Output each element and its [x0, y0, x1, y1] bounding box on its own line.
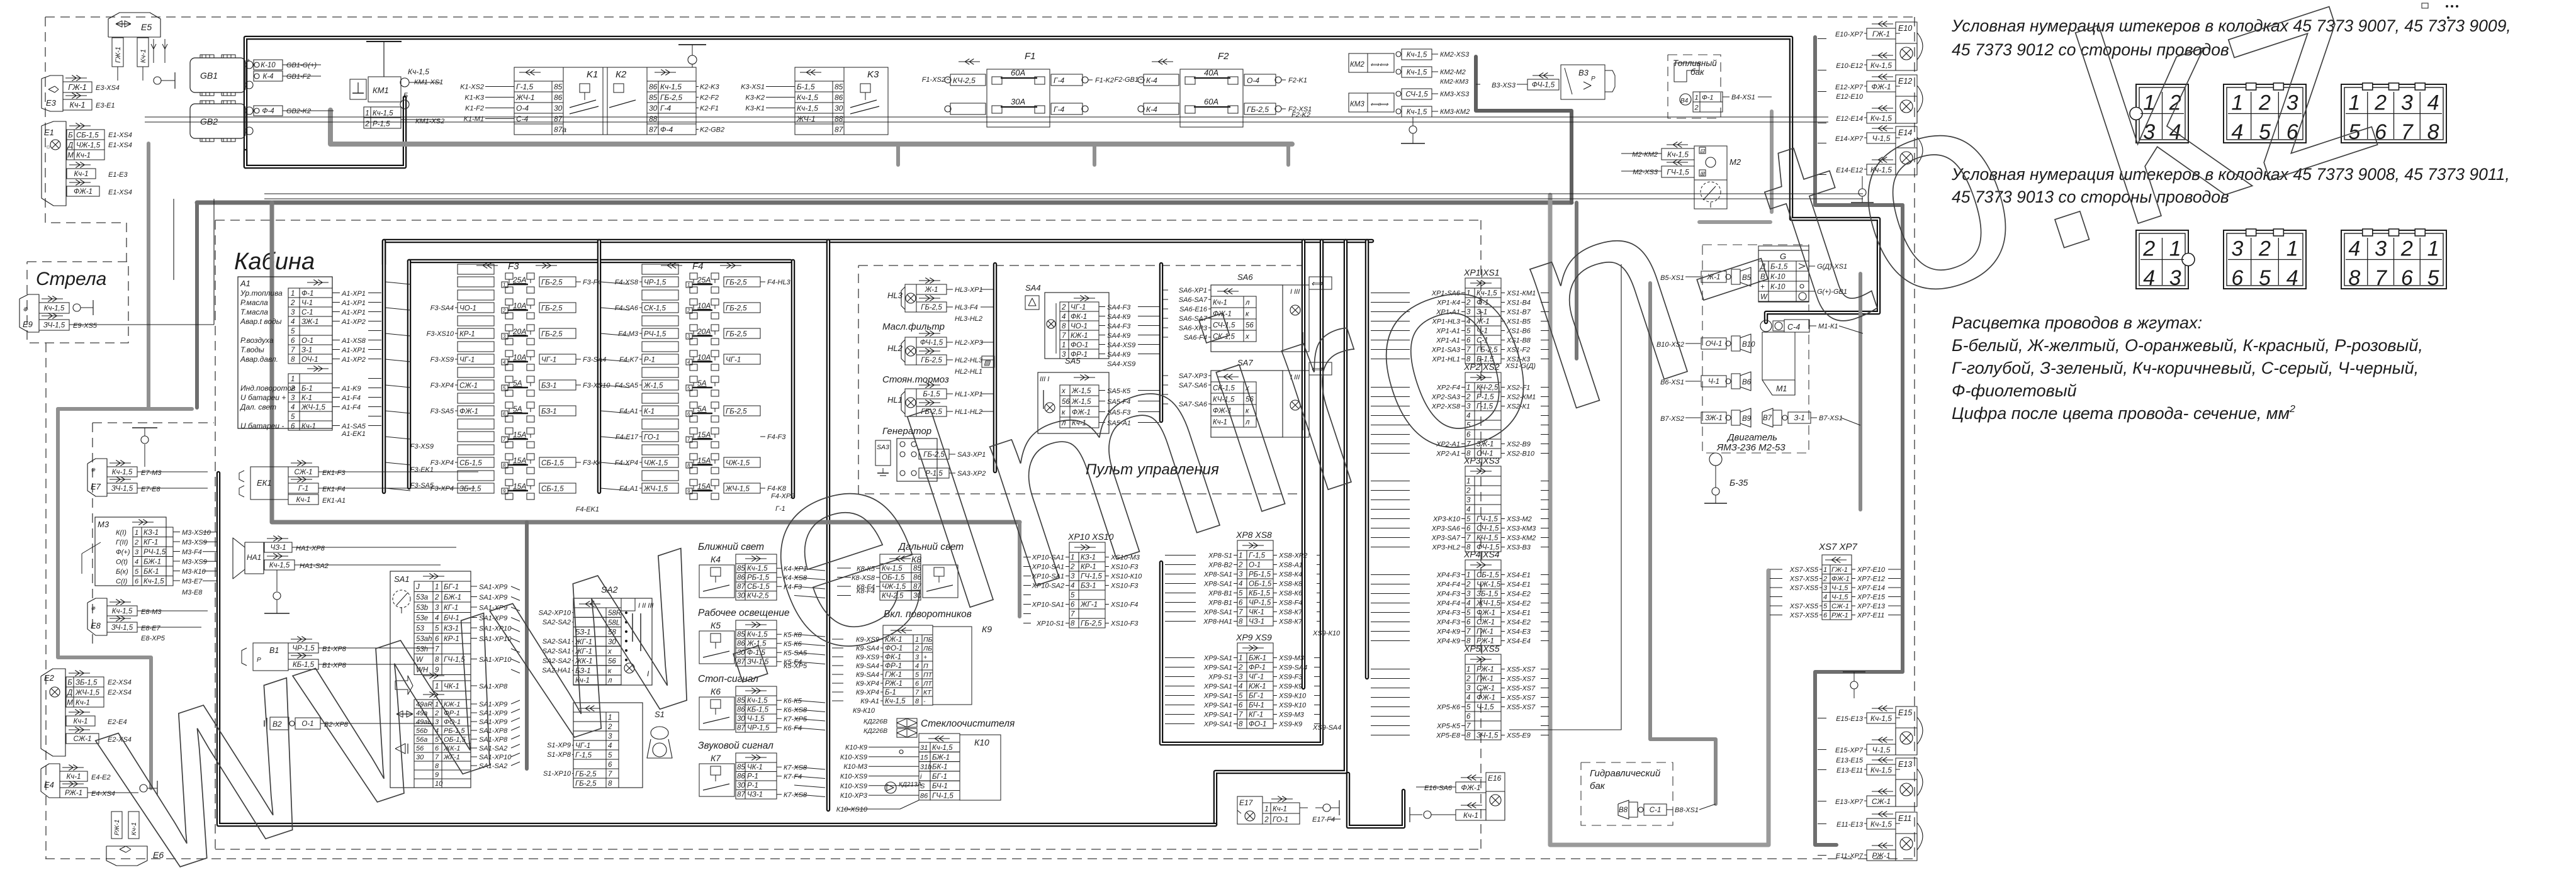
wire E9-XS5 riser to chassis bus: [213, 199, 215, 325]
svg-text:ЧГ-1: ЧГ-1: [1249, 674, 1264, 681]
svg-text:F4-SA5: F4-SA5: [615, 382, 639, 389]
svg-text:ФЖ-1: ФЖ-1: [1461, 783, 1480, 792]
svg-text:Кч-1: Кч-1: [70, 101, 86, 109]
lamp Е10: [1872, 23, 1893, 25]
svg-text:K1-F2: K1-F2: [465, 105, 484, 113]
svg-text:ЧГ-1: ЧГ-1: [541, 357, 556, 364]
node engine dashed box (Двигатель ЯМЗ-236 М2-53): [1702, 245, 1809, 453]
svg-text:F4-K7: F4-K7: [619, 356, 639, 364]
svg-text:1: 1: [291, 290, 295, 298]
svg-text:ХР4-К9: ХР4-К9: [1436, 628, 1460, 636]
svg-text:Е15-ХР7: Е15-ХР7: [1835, 747, 1864, 754]
svg-text:U батареи +: U батареи +: [240, 393, 286, 402]
svg-text:В8: В8: [1619, 807, 1628, 814]
wire fan-out HL to vertical: [981, 289, 993, 290]
svg-text:Б: Б: [67, 679, 72, 687]
svg-text:1: 1: [291, 376, 295, 383]
svg-text:5: 5: [2427, 266, 2439, 290]
svg-text:-: -: [923, 698, 926, 705]
svg-text:Авар.t воды: Авар.t воды: [240, 317, 282, 326]
svg-text:ЖЧ-1,5: ЖЧ-1,5: [1476, 600, 1500, 608]
svg-text:З-1: З-1: [301, 347, 312, 354]
svg-text:6: 6: [687, 411, 690, 417]
wire fan-out SA1 to gray harness: [511, 586, 520, 590]
svg-text:КЧ-1,5: КЧ-1,5: [1476, 535, 1499, 542]
svg-text:М3-XS9: М3-XS9: [182, 539, 207, 547]
svg-text:4: 4: [2348, 237, 2360, 260]
svg-text:F4-A1: F4-A1: [619, 408, 638, 415]
svg-text:ХР3-SA7: ХР3-SA7: [1431, 535, 1461, 542]
svg-text:ФЖ-1: ФЖ-1: [74, 188, 93, 196]
svg-text:ХР3-К10: ХР3-К10: [1432, 516, 1461, 523]
wire long thin bus pair at cabin top: [264, 193, 1863, 194]
svg-text:ГБ-2,5: ГБ-2,5: [726, 408, 747, 416]
svg-text:К(I): К(I): [116, 529, 127, 537]
svg-text:ЧЗ-1: ЧЗ-1: [270, 544, 286, 552]
svg-text:СЖ-1: СЖ-1: [1476, 619, 1495, 627]
svg-text:XS4-Е2: XS4-Е2: [1506, 600, 1531, 608]
svg-text:85: 85: [737, 764, 745, 771]
svg-text:7: 7: [1466, 535, 1471, 542]
svg-text:ГЖ-1: ГЖ-1: [68, 83, 86, 92]
wire cabin bottom harness: [218, 473, 1215, 825]
svg-text:ЗЧ-1,5: ЗЧ-1,5: [1476, 732, 1499, 740]
node chassis boundary (outer dashed frame): [45, 16, 1915, 18]
svg-text:XS7-XS5: XS7-XS5: [1789, 584, 1819, 592]
svg-text:XS3-В3: XS3-В3: [1506, 544, 1531, 552]
lamp Е13: [1872, 759, 1893, 761]
svg-text:6: 6: [291, 423, 295, 430]
svg-text:Дал. свет: Дал. свет: [239, 403, 276, 411]
svg-text:Кч-1: Кч-1: [76, 152, 91, 160]
wire cabin second top harness: [409, 259, 790, 264]
svg-text:В3-XS3: В3-XS3: [1492, 82, 1516, 89]
svg-text:КР-1: КР-1: [459, 331, 475, 338]
wire gray harness chassis bus: [197, 201, 1572, 205]
svg-text:6: 6: [1466, 525, 1471, 533]
svg-text:ГБ-2,5: ГБ-2,5: [726, 305, 747, 313]
svg-text:1: 1: [1264, 806, 1268, 813]
svg-text:86: 86: [835, 93, 843, 102]
svg-text:F3-K4: F3-K4: [583, 459, 602, 467]
svg-text:ХР5-К6: ХР5-К6: [1436, 704, 1461, 712]
svg-text:РЧ-1,5: РЧ-1,5: [644, 331, 666, 338]
svg-text:7: 7: [503, 437, 506, 443]
svg-text:М3-К10: М3-К10: [182, 568, 206, 576]
svg-text:A1-XS8: A1-XS8: [341, 337, 366, 345]
svg-text:ФЧ-1,5: ФЧ-1,5: [1532, 82, 1555, 89]
svg-text:Д: Д: [67, 142, 73, 150]
svg-text:В8-XS1: В8-XS1: [1675, 807, 1699, 814]
svg-text:Ф-4: Ф-4: [262, 108, 274, 115]
svg-text:1: 1: [1466, 572, 1470, 579]
svg-text:Р: Р: [1591, 75, 1595, 82]
svg-text:СЖ-1: СЖ-1: [1831, 603, 1849, 610]
svg-text:Кч-1,5: Кч-1,5: [797, 104, 818, 113]
svg-text:A1-K9: A1-K9: [341, 385, 361, 393]
svg-text:25А: 25А: [512, 276, 526, 284]
svg-text:3: 3: [1239, 674, 1243, 681]
svg-text:2: 2: [1264, 817, 1269, 824]
svg-text:Е15-Е13: Е15-Е13: [1836, 715, 1864, 723]
svg-text:КД226В: КД226В: [863, 718, 887, 725]
svg-text:XS4-Е4: XS4-Е4: [1506, 638, 1531, 645]
svg-text:8: 8: [291, 356, 295, 364]
svg-text:6: 6: [2401, 266, 2413, 290]
svg-text:10А: 10А: [697, 301, 711, 310]
node fuel tank dashed box (Топливный бак): [1668, 55, 1721, 118]
svg-text:15А: 15А: [513, 482, 526, 491]
wire fan-out XP8 XS8: [1165, 555, 1196, 556]
lamp E1 (left headlamp): [42, 121, 66, 206]
svg-text:Г(II): Г(II): [116, 539, 128, 547]
heater plug EK1: [250, 467, 288, 500]
lamp E4 (left turn lamp): [41, 764, 60, 798]
svg-text:K1-XS2: K1-XS2: [460, 84, 484, 91]
svg-text:GB1-F2: GB1-F2: [286, 73, 311, 81]
svg-text:6: 6: [1239, 600, 1243, 607]
svg-text:8: 8: [1466, 732, 1471, 740]
svg-text:Б(к): Б(к): [116, 568, 128, 576]
svg-text:Инд.поворотов: Инд.поворотов: [240, 384, 295, 393]
svg-text:ЗБ-1,5: ЗБ-1,5: [459, 486, 481, 493]
svg-text:ЧР-1,5: ЧР-1,5: [644, 279, 666, 287]
svg-text:7: 7: [1239, 609, 1243, 617]
svg-text:☼: ☼: [45, 143, 51, 150]
svg-text:Р-1: Р-1: [644, 357, 655, 364]
svg-text:ЧЗ-1: ЧЗ-1: [747, 791, 763, 799]
svg-text:Авар.давл.: Авар.давл.: [240, 355, 278, 364]
svg-text:ХР7-Е10: ХР7-Е10: [1857, 566, 1886, 574]
svg-text:БЧ-1: БЧ-1: [932, 783, 948, 790]
svg-text:ХР7-Е11: ХР7-Е11: [1857, 612, 1884, 620]
svg-text:СЧ-1,5: СЧ-1,5: [1405, 91, 1428, 99]
plug B2 (sensor): [270, 717, 289, 730]
lamp E3 (left front marker): [42, 75, 63, 111]
svg-text:6: 6: [2231, 266, 2243, 290]
node HA1 ground: [276, 570, 278, 591]
svg-text:Ч-1,5: Ч-1,5: [1872, 745, 1891, 754]
svg-text:6: 6: [1823, 612, 1828, 620]
svg-text:A1-EK1: A1-EK1: [341, 430, 366, 438]
svg-text:ХР9-SA1: ХР9-SA1: [1203, 712, 1232, 719]
svg-text:бак: бак: [1590, 781, 1606, 791]
svg-text:Кч-1: Кч-1: [1463, 811, 1478, 820]
svg-text:K2-F1: K2-F1: [700, 105, 719, 113]
svg-text:В3: В3: [1578, 68, 1589, 77]
svg-text:4: 4: [503, 360, 506, 366]
svg-text:⟺⟺: ⟺⟺: [1370, 62, 1388, 69]
svg-text:20А: 20А: [697, 327, 711, 336]
svg-text:A1-XP1: A1-XP1: [341, 309, 366, 316]
connector pinout 2x2 straight: [2136, 84, 2188, 143]
lamp E17 (portable lamp socket): [1237, 796, 1263, 824]
svg-text:A1-F4: A1-F4: [341, 394, 361, 402]
svg-text:Г-голубой, З-зеленый, Кч-корич: Г-голубой, З-зеленый, Кч-коричневый, С-с…: [1952, 359, 2419, 377]
svg-text:F4-E17: F4-E17: [616, 433, 639, 441]
svg-text:КМ1: КМ1: [373, 86, 389, 95]
svg-text:Е4: Е4: [44, 780, 54, 790]
svg-text:БК-1: БК-1: [143, 568, 159, 576]
svg-text:60А: 60А: [1204, 97, 1218, 106]
node SA1 fog icon: [395, 744, 405, 754]
svg-text:XS5-XS7: XS5-XS7: [1506, 666, 1536, 674]
svg-text:ХР8-НА1: ХР8-НА1: [1203, 618, 1232, 626]
svg-text:Ч-1,5: Ч-1,5: [1476, 704, 1494, 712]
svg-text:Д: Д: [66, 689, 72, 697]
svg-text:З-1: З-1: [1794, 415, 1804, 422]
plug B1 (brake sensor): [253, 643, 288, 671]
svg-text:М3-XS10: М3-XS10: [182, 529, 211, 537]
svg-text:СЖ-1: СЖ-1: [294, 469, 312, 476]
sensor B8 (hydraulic tank): [1618, 800, 1629, 819]
svg-text:5А: 5А: [697, 379, 707, 388]
node SA1 horn icon: [395, 676, 413, 695]
connector pinout 2x3 straight: [2224, 84, 2306, 143]
svg-text:SA4: SA4: [1025, 283, 1041, 293]
svg-text:2: 2: [290, 385, 295, 393]
svg-text:8: 8: [1239, 721, 1243, 728]
wire fan-out right lamps E10-E14: [1818, 38, 1826, 40]
svg-text:ГО-1: ГО-1: [644, 434, 660, 442]
svg-text:88: 88: [649, 114, 658, 123]
svg-text:С-4: С-4: [516, 114, 529, 123]
svg-text:Кч-1,5: Кч-1,5: [112, 469, 133, 476]
svg-text:Б-35: Б-35: [1730, 477, 1748, 488]
svg-text:K2-F2: K2-F2: [700, 94, 719, 102]
svg-text:85: 85: [835, 82, 843, 91]
svg-text:РЖ-1: РЖ-1: [1872, 851, 1890, 860]
lamp Е12: [1872, 76, 1893, 77]
svg-text:Гидравлический: Гидравлический: [1590, 768, 1661, 779]
svg-text:Кч-1,5: Кч-1,5: [1407, 69, 1427, 77]
svg-text:F4-XS8: F4-XS8: [615, 279, 639, 286]
svg-text:ХР5-К5: ХР5-К5: [1436, 723, 1461, 730]
svg-text:A1-SA5: A1-SA5: [341, 423, 366, 430]
svg-text:Кч-1,5: Кч-1,5: [1870, 714, 1892, 723]
svg-text:XS4-Е1: XS4-Е1: [1506, 610, 1531, 617]
lamp E8: [87, 598, 107, 635]
svg-text:ЧГ-1: ЧГ-1: [726, 357, 741, 364]
svg-text:F4-SA6: F4-SA6: [615, 304, 639, 312]
svg-text:ФЧ-1,5: ФЧ-1,5: [920, 339, 943, 347]
svg-text:GB2-K2: GB2-K2: [286, 108, 311, 115]
node SA7 icon: [1309, 362, 1332, 375]
svg-text:XS9-SA4: XS9-SA4: [1278, 664, 1307, 672]
svg-text:БЗ-1: БЗ-1: [541, 382, 557, 390]
svg-text:XS9-К9: XS9-К9: [1278, 683, 1302, 691]
svg-text:К-1: К-1: [644, 408, 655, 416]
wire fan-out SA4 SA5 to vertical: [1138, 306, 1159, 308]
svg-text:15А: 15А: [513, 430, 526, 439]
svg-text:Кч-1: Кч-1: [296, 496, 311, 504]
lamp E9 (boom work lamp): [20, 294, 39, 332]
svg-text:Кч-1,5: Кч-1,5: [932, 744, 953, 752]
svg-text:ЧК-1: ЧК-1: [747, 764, 763, 771]
svg-text:F3-XP4: F3-XP4: [430, 485, 454, 493]
svg-text:Е16-SA6: Е16-SA6: [1424, 784, 1453, 792]
svg-text:Р-1,5: Р-1,5: [373, 121, 390, 128]
svg-text:НА1-ХР8: НА1-ХР8: [296, 545, 325, 552]
svg-text:4: 4: [135, 559, 138, 566]
svg-text:Кч-1: Кч-1: [301, 423, 316, 430]
lamp Е15: [1872, 708, 1893, 709]
svg-text:ЕК1-F4: ЕК1-F4: [322, 486, 345, 493]
svg-text:ГЧ-1,5: ГЧ-1,5: [932, 793, 953, 800]
svg-text:+: +: [247, 57, 250, 64]
svg-text:БГ-1: БГ-1: [932, 773, 947, 781]
svg-text:F3-SA4: F3-SA4: [583, 356, 606, 364]
svg-text:5: 5: [1466, 610, 1471, 617]
wire gray harness left drop: [147, 143, 150, 409]
svg-text:ГБ-2,5: ГБ-2,5: [541, 305, 563, 313]
svg-text:Б: Б: [68, 132, 73, 140]
svg-text:БГ-1: БГ-1: [1249, 693, 1264, 700]
svg-text:XS5-XS7: XS5-XS7: [1506, 695, 1536, 702]
svg-text:ХР7-Е14: ХР7-Е14: [1857, 584, 1885, 592]
svg-text:XS3-КМ2: XS3-КМ2: [1506, 535, 1536, 542]
svg-text:КМ3: КМ3: [1350, 101, 1364, 108]
svg-text:2: 2: [1823, 576, 1827, 583]
svg-text:Кч-1: Кч-1: [74, 718, 88, 725]
svg-text:K2-K3: K2-K3: [700, 84, 719, 91]
svg-text:ФЖ-1: ФЖ-1: [1476, 610, 1495, 617]
svg-text:F3-XP4: F3-XP4: [430, 459, 454, 467]
svg-text:ХР8-В1: ХР8-В1: [1208, 590, 1232, 598]
svg-text:86: 86: [920, 793, 928, 800]
lamp E7: [87, 459, 107, 496]
sensor B7: [1762, 408, 1773, 427]
svg-text:A1-XP1: A1-XP1: [341, 347, 366, 354]
svg-text:СЖ-1: СЖ-1: [73, 735, 91, 743]
wire fan-out XP9 XS9: [1165, 657, 1195, 659]
svg-text:4: 4: [1823, 594, 1827, 601]
svg-text:2: 2: [1466, 676, 1471, 683]
svg-text:U батареи -: U батареи -: [240, 421, 284, 430]
svg-text:Р.масла: Р.масла: [240, 298, 268, 307]
svg-text:Е13: Е13: [1898, 760, 1912, 769]
wire fan-out XP10 from gray drop: [1023, 557, 1031, 558]
svg-text:Кч-1,5: Кч-1,5: [112, 608, 133, 615]
lamp E16 (cabin dome lamp): [1461, 777, 1482, 778]
svg-text:Кч-1,5: Кч-1,5: [44, 305, 65, 313]
connector pinout 2x4 straight: [2341, 84, 2446, 143]
switch SA3 (mass switch button): [875, 440, 891, 466]
svg-text:Р-1: Р-1: [747, 773, 758, 781]
svg-text:Г-1: Г-1: [298, 485, 308, 493]
svg-text:Е13-ХР7: Е13-ХР7: [1835, 798, 1864, 806]
svg-text:ЗБ-1,5: ЗБ-1,5: [1476, 591, 1499, 598]
svg-text:40А: 40А: [1204, 68, 1218, 77]
svg-text:F3-SA5: F3-SA5: [430, 408, 454, 415]
svg-text:О-4: О-4: [1247, 76, 1259, 85]
svg-text:БЗ-1: БЗ-1: [541, 408, 557, 416]
svg-text:ХР4-F4: ХР4-F4: [1436, 581, 1460, 589]
svg-text:XS9-М3: XS9-М3: [1278, 655, 1305, 662]
svg-text:1: 1: [1694, 94, 1698, 102]
svg-text:5А: 5А: [697, 405, 707, 413]
svg-text:СЖ-1: СЖ-1: [1476, 685, 1495, 693]
wire long thin bus E1/E3 to right side: [145, 116, 1828, 118]
svg-text:5: 5: [291, 328, 295, 335]
node control panel dashed box (Пульт управления): [858, 265, 1303, 494]
svg-text:Двигатель: Двигатель: [1726, 432, 1777, 443]
node K2 ground: [692, 64, 693, 67]
wire gray harness engine drops: [1650, 283, 1716, 804]
svg-text:ФР-1: ФР-1: [1249, 664, 1266, 672]
lamp E2 (left rear lamp): [41, 669, 65, 756]
svg-text:РЖ-1: РЖ-1: [65, 790, 82, 797]
svg-text:Е17: Е17: [1239, 798, 1254, 807]
svg-text:E9: E9: [23, 320, 33, 329]
svg-text:С-1: С-1: [301, 309, 313, 316]
wire gray harness right lamps feed: [1815, 37, 1903, 205]
svg-text:60А: 60А: [1011, 68, 1025, 77]
svg-text:Е17-F4: Е17-F4: [1312, 816, 1335, 823]
svg-text:Кч-1,5: Кч-1,5: [1870, 820, 1892, 829]
svg-text:F3-SA4: F3-SA4: [430, 304, 454, 312]
svg-text:XS3-КМ3: XS3-КМ3: [1506, 525, 1536, 533]
svg-text:ЗЧ-1,5: ЗЧ-1,5: [43, 322, 65, 330]
svg-text:ХР8-В1: ХР8-В1: [1208, 600, 1232, 607]
svg-text:1: 1: [687, 282, 690, 288]
svg-text:XS9-К10: XS9-К10: [1278, 693, 1307, 700]
svg-text:XS4-Е2: XS4-Е2: [1506, 619, 1531, 627]
svg-text:ЧО-1: ЧО-1: [459, 305, 476, 313]
svg-text:⛯: ⛯: [23, 306, 28, 313]
svg-text:3: 3: [1466, 591, 1471, 598]
svg-text:Кч-1: Кч-1: [140, 49, 147, 63]
svg-text:20А: 20А: [512, 327, 526, 336]
svg-text:Б-1,5: Б-1,5: [797, 82, 815, 91]
svg-text:F2-K2: F2-K2: [1291, 111, 1310, 119]
svg-text:XS8-К8: XS8-К8: [1278, 581, 1303, 588]
svg-text:2: 2: [687, 308, 690, 314]
svg-text:Масл.фильтр: Масл.фильтр: [882, 321, 945, 332]
svg-text:F3-F4: F3-F4: [583, 279, 601, 286]
svg-text:Ч-1,5: Ч-1,5: [1831, 594, 1848, 601]
svg-text:СБ-1,5: СБ-1,5: [1476, 572, 1499, 579]
svg-text:КГ-1: КГ-1: [1249, 712, 1263, 719]
svg-text:XS4-Е2: XS4-Е2: [1506, 591, 1531, 598]
svg-text:7: 7: [1466, 723, 1471, 730]
svg-text:РЧ-1,5: РЧ-1,5: [143, 549, 166, 556]
svg-text:4: 4: [2427, 91, 2439, 114]
node SA1 wiper icon: [393, 590, 410, 608]
wire XS5-E9 long link: [1509, 264, 1621, 730]
svg-text:М3-F4: М3-F4: [182, 549, 202, 556]
svg-text:8: 8: [915, 698, 920, 705]
svg-text:ГЖ-1: ГЖ-1: [1872, 30, 1890, 38]
svg-text:К2: К2: [616, 69, 627, 80]
svg-text:Кч-1,5: Кч-1,5: [885, 698, 906, 705]
svg-text:Кч-1,5: Кч-1,5: [1407, 109, 1427, 116]
svg-text:8: 8: [1239, 618, 1243, 626]
svg-text:F4: F4: [692, 261, 704, 272]
svg-text:1: 1: [1239, 655, 1242, 662]
svg-text:Кч-1,5: Кч-1,5: [660, 82, 682, 91]
svg-text:3: 3: [291, 309, 295, 316]
svg-text:88: 88: [835, 114, 843, 123]
svg-text:Цифра после цвета провода- сеч: Цифра после цвета провода- сечение, мм2: [1952, 404, 2295, 423]
svg-text:XS8-К7: XS8-К7: [1278, 609, 1303, 617]
svg-text:Кч-1,5: Кч-1,5: [797, 93, 818, 102]
svg-text:М3-XS9: М3-XS9: [182, 559, 207, 566]
svg-text:85: 85: [554, 82, 563, 91]
svg-text:HL3-F4: HL3-F4: [955, 304, 978, 311]
svg-text:ГБ-2,5: ГБ-2,5: [541, 279, 563, 287]
svg-text:F2-GB1: F2-GB1: [1114, 76, 1139, 84]
